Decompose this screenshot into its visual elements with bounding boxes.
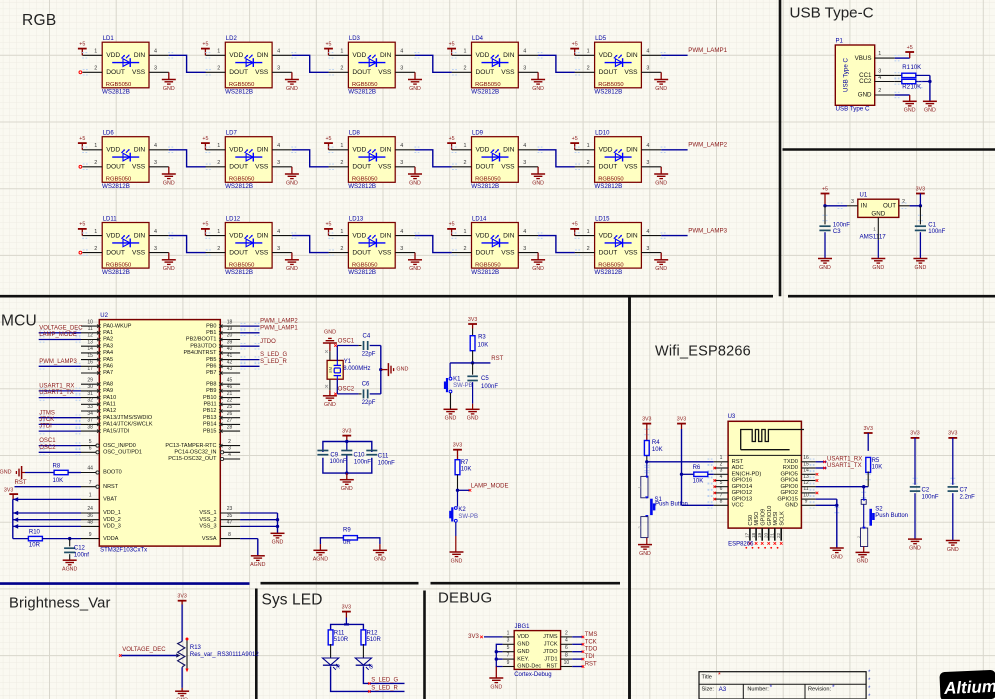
svg-text:DOUT: DOUT: [476, 69, 495, 76]
section border: MCU/Wifi vertical divider: [628, 296, 631, 699]
capacitor C9 100nF: [317, 451, 346, 466]
svg-text:G: G: [369, 665, 373, 671]
svg-text:37: 37: [87, 418, 93, 424]
svg-text:TDI: TDI: [585, 654, 595, 660]
LED LD1 (WS2812B RGB5050): [102, 36, 149, 96]
svg-text:4: 4: [565, 638, 568, 644]
svg-text:1: 1: [873, 226, 876, 231]
svg-text:GPIO16: GPIO16: [732, 478, 753, 484]
svg-text:PB3/JTDO: PB3/JTDO: [190, 343, 217, 349]
svg-text:PA11: PA11: [103, 402, 116, 408]
U2 pin 16 PA6: [81, 360, 113, 370]
svg-text:VSS: VSS: [255, 69, 269, 76]
svg-text:GPIO9: GPIO9: [760, 509, 766, 526]
svg-text:VSS: VSS: [255, 249, 269, 256]
svg-text:C11: C11: [378, 454, 389, 460]
U2 pin 44 BOOT0: [81, 466, 122, 476]
svg-text:DIN: DIN: [134, 147, 146, 154]
LED LD14 (WS2812B RGB5050): [471, 216, 518, 275]
svg-text:VDD: VDD: [106, 147, 120, 154]
svg-text:18: 18: [227, 319, 233, 325]
U3 pin 7 GPIO13: [714, 492, 753, 502]
LD15 pin 1 VDD wire: [575, 229, 595, 236]
svg-text:LAMP_MODE: LAMP_MODE: [471, 484, 509, 490]
LD2 pin 2 DOUT wire: [206, 66, 226, 73]
svg-text:WS2812B: WS2812B: [348, 183, 376, 190]
svg-text:10: 10: [564, 660, 570, 666]
svg-text:CS0: CS0: [748, 515, 754, 526]
svg-text:GND: GND: [0, 470, 12, 476]
wire +5 to U1 IN: [823, 204, 847, 207]
svg-text:VDD_2: VDD_2: [103, 517, 121, 523]
svg-text:GND: GND: [272, 540, 284, 546]
svg-text:+5: +5: [449, 136, 455, 142]
svg-text:10K: 10K: [693, 479, 704, 485]
wire/net label OSC1 (crystal): [334, 338, 358, 361]
svg-text:GND: GND: [517, 642, 529, 648]
ground AGND (C12): [63, 559, 77, 561]
svg-text:RGB5050: RGB5050: [229, 262, 254, 268]
svg-text:2: 2: [94, 246, 97, 252]
U2 pin 40 PB4/JNTRST: [183, 346, 240, 356]
wire/net label TDI (debug): [572, 654, 594, 660]
svg-text:22: 22: [227, 398, 233, 404]
wire LD1 DIN to next DOUT: [169, 55, 206, 72]
svg-text:3: 3: [507, 638, 510, 644]
svg-text:1: 1: [587, 49, 590, 55]
LD5 pin 2 DOUT wire: [575, 66, 595, 73]
LD5 pin 3 VSS wire: [641, 66, 661, 73]
wire CC1/CC2 join to ground: [928, 75, 931, 101]
section border: horizontal divider y=296 left segment: [0, 295, 773, 298]
svg-text:23: 23: [227, 506, 233, 512]
U2 pin 25 PB12: [203, 404, 240, 414]
svg-text:PA14/JTCK/SWCLK: PA14/JTCK/SWCLK: [103, 422, 153, 428]
LED DR (red system led): [323, 658, 341, 671]
svg-text:C5: C5: [481, 376, 489, 382]
svg-text:LD4: LD4: [472, 36, 484, 42]
LD5 pin 1 VDD wire: [575, 49, 595, 56]
svg-text:GND: GND: [324, 330, 336, 336]
svg-text:17: 17: [87, 366, 93, 372]
wire/net label PWM_LAMP1: [240, 325, 298, 335]
svg-text:PWM_LAMP2: PWM_LAMP2: [688, 142, 727, 149]
ground at LD6 VSS: [162, 167, 176, 187]
svg-text:15: 15: [87, 353, 93, 359]
svg-text:8: 8: [228, 532, 231, 538]
svg-text:ADC: ADC: [732, 465, 744, 471]
wire/net label RST (NRST): [15, 480, 82, 487]
ground (USB GND): [903, 95, 917, 114]
svg-text:1: 1: [587, 143, 590, 149]
svg-text:Number:: Number:: [747, 686, 769, 692]
LD14 pin 4 DIN wire: [518, 229, 538, 236]
svg-text:2: 2: [217, 246, 220, 252]
wire/net label USART1_TX (ESP RXD0): [816, 463, 862, 469]
U2 pin 28 PB15: [203, 424, 240, 434]
U2 pin 19 PB1: [206, 326, 240, 336]
wire/net label OSC2: [39, 445, 81, 455]
svg-text:PB8: PB8: [206, 381, 216, 387]
power +5 (regulator input): [821, 186, 830, 206]
svg-text:C10: C10: [354, 453, 366, 459]
svg-text:TXD0: TXD0: [783, 459, 798, 465]
svg-text:PB12: PB12: [203, 408, 216, 414]
ground at LD5 VSS: [654, 72, 668, 92]
svg-text:RGB5050: RGB5050: [598, 262, 623, 268]
svg-text:VDD: VDD: [229, 52, 243, 59]
LD10 pin 3 VSS wire: [641, 160, 661, 167]
svg-text:R10: R10: [29, 529, 41, 535]
U2 pin 34 PA13/JTMS/SWDIO: [81, 411, 153, 421]
power +5 at LD13: [324, 222, 333, 236]
svg-text:+5: +5: [325, 136, 331, 142]
svg-text:GND: GND: [872, 265, 884, 271]
svg-text:3: 3: [277, 160, 280, 166]
LED LD3 (WS2812B RGB5050): [348, 36, 395, 96]
LD14 pin 1 VDD wire: [452, 229, 472, 236]
svg-text:1: 1: [340, 229, 343, 235]
ground (R9 right): [373, 544, 387, 563]
svg-text:SW-PB: SW-PB: [453, 383, 473, 389]
wire/net label S_LED_R: [331, 666, 405, 692]
svg-text:AGND: AGND: [62, 567, 77, 573]
module U3 ESP8266 body: [728, 414, 804, 528]
svg-text:PA4: PA4: [103, 350, 113, 356]
svg-text:VDD: VDD: [476, 232, 490, 239]
wire LD14 DIN to next DOUT: [538, 236, 575, 253]
resistor R12 510R: [361, 630, 382, 658]
svg-text:C2: C2: [922, 488, 930, 494]
svg-text:13: 13: [87, 339, 93, 345]
LD14 pin 3 VSS wire: [518, 246, 538, 253]
resistor R5 10K: [866, 457, 882, 486]
U2 pin 33 PA12: [81, 404, 116, 414]
section border: Brightness_Var / Sys LED vertical: [255, 589, 258, 699]
svg-text:RXD0: RXD0: [783, 465, 798, 471]
svg-text:38: 38: [87, 424, 93, 430]
P1 pin 3 CC1 wire: [875, 69, 895, 76]
U3 pin 22 SCLK: [776, 511, 785, 549]
ground (ESP GND): [830, 547, 844, 549]
svg-text:VDD: VDD: [106, 52, 120, 59]
svg-text:PB7: PB7: [206, 370, 216, 376]
svg-text:GND: GND: [655, 180, 667, 186]
svg-text:Altium: Altium: [943, 677, 995, 698]
svg-text:GND: GND: [831, 554, 843, 560]
svg-text:GND: GND: [857, 559, 869, 565]
switch K1 SW-PB: [444, 363, 473, 393]
svg-text:40: 40: [227, 346, 233, 352]
svg-text:C12: C12: [74, 546, 86, 552]
svg-text:VSS_3: VSS_3: [199, 524, 216, 530]
svg-text:VSS: VSS: [624, 69, 638, 76]
svg-text:10R: 10R: [29, 542, 41, 548]
svg-text:9: 9: [805, 499, 808, 505]
svg-text:VSS: VSS: [132, 69, 146, 76]
Altium logo: [939, 670, 995, 699]
ground (crystal bottom): [323, 390, 337, 408]
svg-text:18: 18: [751, 532, 756, 538]
svg-text:2: 2: [94, 160, 97, 166]
U2 pin 22 PB11: [203, 398, 240, 408]
LD3 pin 4 DIN wire: [395, 49, 415, 56]
svg-text:KEY.: KEY.: [517, 656, 529, 662]
wire LD3 DIN to next DOUT: [415, 55, 452, 72]
svg-text:WS2812B: WS2812B: [348, 269, 376, 276]
svg-text:LD11: LD11: [103, 216, 118, 222]
svg-text:Wifi_ESP8266: Wifi_ESP8266: [655, 343, 751, 359]
svg-text:6: 6: [89, 446, 92, 452]
svg-text:3V3: 3V3: [177, 594, 186, 600]
wire LD2 DIN to next DOUT: [292, 55, 329, 72]
LD4 pin 1 VDD wire: [452, 49, 472, 56]
svg-text:GPIO12: GPIO12: [732, 490, 753, 496]
section border: Brightness_Var top (blue): [0, 582, 250, 585]
U2 pin 24 VDD_1: [81, 506, 121, 516]
wire decoupling rails: [323, 440, 372, 475]
capacitor C3 100nF: [819, 206, 850, 259]
wire LD8 DIN to next DOUT: [415, 150, 452, 167]
svg-text:DIN: DIN: [503, 52, 515, 59]
U3 pin 8 VCC: [714, 499, 744, 509]
svg-text:PWM_LAMP2: PWM_LAMP2: [260, 319, 298, 325]
svg-text:35: 35: [227, 513, 233, 519]
U2 pin 38 PA15/JTDI: [81, 424, 130, 434]
svg-text:4: 4: [646, 49, 649, 55]
capacitor C7 2.2nF: [948, 487, 976, 541]
svg-text:VDD: VDD: [106, 232, 120, 239]
wire LD5 DIN to PWM_LAMP1: [661, 54, 687, 56]
svg-text:R9: R9: [343, 527, 351, 533]
svg-text:3: 3: [523, 66, 526, 72]
ground (VSS): [271, 532, 285, 534]
svg-text:Push Button: Push Button: [875, 513, 908, 519]
svg-text:GPIO15: GPIO15: [777, 496, 798, 502]
svg-text:GND: GND: [409, 266, 421, 272]
U3 pin 19 GPIO9: [757, 509, 766, 549]
svg-text:11: 11: [88, 326, 93, 332]
svg-text:WS2812B: WS2812B: [102, 269, 130, 276]
LD1 pin 1 VDD wire: [82, 49, 102, 56]
U2 pin 18 PB0: [206, 319, 240, 329]
ground at LD15 VSS: [654, 253, 668, 273]
ground (crystal load caps, sideways): [381, 363, 409, 376]
svg-text:GND: GND: [904, 108, 916, 114]
svg-text:WS2812B: WS2812B: [594, 269, 622, 276]
svg-text:100nF: 100nF: [330, 459, 347, 465]
svg-text:10: 10: [87, 319, 93, 325]
svg-text:USB Type C: USB Type C: [843, 58, 850, 92]
U3 pin 12 GPIO0: [781, 480, 816, 490]
svg-text:2: 2: [878, 88, 881, 94]
svg-text:OSC1: OSC1: [338, 338, 355, 344]
svg-text:RST: RST: [547, 664, 559, 670]
wire/net label JTCK: [39, 417, 81, 427]
resistor R8 10K: [25, 463, 81, 484]
svg-text:VDD: VDD: [476, 52, 490, 59]
capacitor C11 100nF: [366, 451, 395, 467]
LD4 pin 2 DOUT wire: [452, 66, 472, 73]
svg-text:VDD: VDD: [352, 232, 366, 239]
power +5 at LD6: [78, 136, 87, 150]
svg-text:19: 19: [227, 326, 233, 332]
svg-text:1: 1: [340, 143, 343, 149]
power +5 at LD11: [78, 222, 87, 236]
svg-text:30: 30: [87, 384, 93, 390]
svg-text:3: 3: [646, 160, 649, 166]
svg-text:100nF: 100nF: [922, 495, 939, 501]
svg-text:GND: GND: [871, 210, 885, 217]
svg-text:VBUS: VBUS: [855, 55, 872, 62]
U2 pin 20 PB2/BOOT1: [186, 333, 240, 343]
svg-text:1: 1: [217, 49, 220, 55]
svg-text:VSS: VSS: [132, 249, 146, 256]
svg-text:PA3: PA3: [103, 343, 113, 349]
svg-text:DOUT: DOUT: [599, 249, 618, 256]
resistor R2 10K: [895, 79, 930, 90]
power +5 at LD10: [570, 136, 579, 150]
svg-text:OSC2: OSC2: [39, 445, 56, 451]
ground (C5): [466, 404, 480, 422]
connector P1 USB Type C: [835, 39, 874, 113]
svg-text:7: 7: [507, 653, 510, 659]
svg-text:10K: 10K: [652, 447, 663, 453]
LD9 pin 1 VDD wire: [452, 143, 472, 150]
svg-text:R1: R1: [902, 65, 910, 71]
svg-text:Title: Title: [702, 675, 712, 681]
LD8 pin 3 VSS wire: [395, 160, 415, 167]
LD7 pin 3 VSS wire: [272, 160, 292, 167]
svg-text:1: 1: [507, 630, 510, 636]
svg-text:VDD_3: VDD_3: [103, 524, 121, 530]
svg-text:RGB5050: RGB5050: [598, 82, 623, 88]
svg-text:RST: RST: [732, 459, 744, 465]
svg-text:2: 2: [587, 66, 590, 72]
svg-text:DOUT: DOUT: [476, 249, 495, 256]
U2 pin 7 NRST: [81, 480, 119, 490]
power +5 at LD2: [201, 41, 210, 55]
no-connect dot at LD11 DOUT: [79, 251, 82, 254]
svg-text:R7: R7: [461, 460, 469, 466]
wire GPIO15/GND to ground: [816, 499, 839, 548]
svg-text:4: 4: [154, 143, 157, 149]
svg-text:PA8: PA8: [103, 381, 113, 387]
wire LD7 DIN to next DOUT: [292, 150, 329, 167]
ground (debug): [489, 677, 503, 679]
LED LD4 (WS2812B RGB5050): [471, 36, 518, 96]
svg-text:PB1: PB1: [206, 330, 216, 336]
svg-text:29: 29: [87, 377, 93, 383]
svg-text:RGB5050: RGB5050: [352, 177, 377, 183]
svg-text:JTD1: JTD1: [544, 656, 557, 662]
svg-text:Cortex-Debug: Cortex-Debug: [514, 672, 551, 678]
power 3V3 (lamp mode pullup): [453, 443, 462, 460]
svg-text:4: 4: [646, 229, 649, 235]
wire/net label RST (debug): [572, 662, 597, 668]
svg-text:DOUT: DOUT: [352, 164, 371, 171]
svg-text:R8: R8: [53, 463, 61, 469]
LED LD6 (WS2812B RGB5050): [102, 131, 149, 191]
svg-text:+5: +5: [79, 41, 85, 47]
ground AGND (VSSA): [251, 555, 265, 557]
LD6 pin 4 DIN wire: [149, 143, 169, 150]
svg-text:JTCK: JTCK: [544, 642, 558, 648]
power 3V3 (R4 pullup): [642, 416, 651, 440]
wire/net label S_LED_G: [363, 666, 404, 684]
LED LD10 (WS2812B RGB5050): [594, 131, 641, 191]
wire LD11 DIN to next DOUT: [169, 236, 206, 253]
svg-text:3: 3: [720, 468, 723, 474]
svg-text:10: 10: [803, 492, 809, 498]
svg-text:TDO: TDO: [585, 647, 598, 653]
svg-text:DIN: DIN: [257, 147, 269, 154]
ground at LD9 VSS: [531, 167, 545, 187]
U2 pin 3 PC14-OSC32_IN: [174, 446, 240, 456]
svg-text:DIN: DIN: [626, 232, 638, 239]
resistor R1 10K: [895, 65, 930, 77]
svg-text:GPIO14: GPIO14: [732, 484, 753, 490]
svg-text:27: 27: [227, 418, 233, 424]
svg-text:PB4/JNTRST: PB4/JNTRST: [183, 350, 217, 356]
svg-text:8.000MHz: 8.000MHz: [343, 366, 370, 372]
svg-text:R12: R12: [367, 631, 379, 637]
svg-text:4: 4: [400, 143, 403, 149]
regulator U1 AMS1117: [858, 193, 899, 241]
svg-text:WS2812B: WS2812B: [471, 269, 499, 276]
LD6 pin 3 VSS wire: [149, 160, 169, 167]
svg-text:VSS: VSS: [378, 69, 392, 76]
svg-text:VDD: VDD: [229, 147, 243, 154]
svg-text:3: 3: [646, 66, 649, 72]
U2 pin 31 PA10: [81, 391, 116, 401]
capacitor C1 100nF: [915, 206, 946, 259]
U2 pin 39 PB3/JTDO: [190, 339, 240, 349]
svg-text:VDD: VDD: [476, 147, 490, 154]
svg-text:3: 3: [154, 66, 157, 72]
wire GPIO0 to R5/S2: [816, 485, 869, 488]
svg-text:DIN: DIN: [626, 147, 638, 154]
svg-text:+5: +5: [449, 222, 455, 228]
wire/net label JTMS: [39, 410, 81, 420]
svg-text:U2: U2: [100, 313, 108, 319]
svg-text:*: *: [832, 685, 835, 692]
svg-text:22pF: 22pF: [362, 400, 376, 406]
svg-text:+5: +5: [79, 222, 85, 228]
U3 pin 11 GPIO2: [781, 486, 819, 496]
svg-text:45: 45: [227, 377, 233, 383]
svg-text:GND: GND: [915, 265, 927, 271]
svg-text:TCK: TCK: [585, 639, 597, 645]
svg-text:4: 4: [523, 229, 526, 235]
svg-text:9: 9: [89, 532, 92, 538]
svg-text:R3: R3: [478, 335, 486, 341]
svg-text:GND: GND: [532, 180, 544, 186]
svg-text:3: 3: [154, 160, 157, 166]
ground at LD2 VSS: [285, 72, 299, 92]
wire/net label JTDI: [39, 424, 81, 434]
wire debug ground rail: [495, 644, 503, 678]
svg-text:26: 26: [227, 411, 233, 417]
LD3 pin 1 VDD wire: [329, 49, 349, 56]
svg-text:VSS: VSS: [624, 249, 638, 256]
section border: DEBUG top: [431, 582, 621, 585]
svg-text:LD8: LD8: [349, 131, 361, 137]
switch S1 Push Button: [637, 462, 688, 538]
svg-text:DOUT: DOUT: [476, 164, 495, 171]
U2 pin 46 PB9: [206, 384, 240, 394]
svg-text:GND: GND: [324, 402, 336, 408]
